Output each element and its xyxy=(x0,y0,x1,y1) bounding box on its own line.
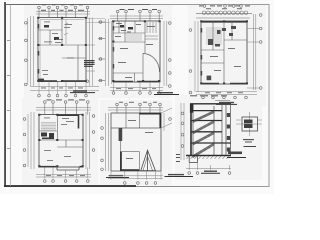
plan A left wall window fills xyxy=(37,24,39,74)
plan B outer wall xyxy=(113,21,160,82)
plan D bottom dim text xyxy=(46,174,85,177)
plan A bottom dim text xyxy=(41,87,83,90)
plan A axis bubbles top xyxy=(38,6,89,17)
faint scan haze washes xyxy=(22,4,266,186)
plan B right axis bubbles xyxy=(169,22,172,88)
plan D title text xyxy=(109,175,123,176)
plan D outer wall xyxy=(39,115,83,168)
plan C title underline xyxy=(216,103,237,105)
roof plan right thick wall xyxy=(159,113,161,128)
stair section right window blocks xyxy=(227,113,230,152)
plan C interior dark fixtures xyxy=(207,26,236,80)
plan C outer wall xyxy=(201,21,247,84)
roof plan left dimension chain xyxy=(105,113,161,180)
plan A title text xyxy=(73,90,87,91)
roof plan hatched wall left xyxy=(119,128,123,141)
plan C bottom axis bubbles xyxy=(202,96,248,99)
detail G dark core xyxy=(244,120,253,129)
binding margin line xyxy=(10,5,12,186)
plan C inner walls xyxy=(201,21,247,84)
plan D right dimension chain xyxy=(86,112,90,169)
plan B title text xyxy=(157,92,173,93)
plan A bottom-left corner mass xyxy=(38,79,44,82)
plan A inner wall lines xyxy=(38,18,86,82)
roof plan interior annotation xyxy=(126,120,153,159)
stair section bottom dimension line xyxy=(186,163,231,170)
roof plan chimney rect xyxy=(120,152,139,171)
plan B bottom axis bubbles xyxy=(112,92,160,95)
roof gable triangle xyxy=(141,150,156,170)
plan D axis bubbles top xyxy=(44,101,90,115)
plan D right upper thick wall xyxy=(78,115,80,129)
plan D interior annotation dashes xyxy=(44,118,74,161)
plan C top wall thick xyxy=(201,21,247,23)
plan D left axis bubbles xyxy=(23,118,26,167)
stair flight 2 xyxy=(193,121,214,134)
roof plan right axis bubble xyxy=(169,118,172,121)
plan B title underline xyxy=(154,94,179,96)
roof plan axis bubbles top xyxy=(116,103,162,113)
stair section title text xyxy=(228,152,242,155)
stair section roof slab xyxy=(190,103,231,105)
roof plan title underline xyxy=(165,176,194,178)
detail G underline xyxy=(244,146,257,148)
stair section top-left hatch xyxy=(190,104,193,112)
plan C bubble chain row xyxy=(196,11,252,18)
plan C right dimension chain xyxy=(247,14,259,90)
plan D bottom extension ticks xyxy=(45,168,88,179)
plan A corner tag bubble xyxy=(86,80,89,83)
plan B door arc xyxy=(143,54,160,73)
plan B stair hatch xyxy=(127,34,141,41)
stair section left dimension chain xyxy=(181,103,184,160)
detail G crosshair lines xyxy=(236,112,262,136)
plan D top dimension text xyxy=(47,99,86,100)
plan A right note text xyxy=(84,60,95,67)
plan A bottom dimension lines xyxy=(30,82,99,95)
plan B bottom wall thick segments xyxy=(114,80,159,82)
plan D bottom axis bubbles xyxy=(44,180,90,183)
plan B left axis bubbles xyxy=(98,22,105,81)
plan A bottom wall thick segments xyxy=(39,80,85,82)
plan B top dimension text xyxy=(120,9,158,10)
plan C stair hatch xyxy=(206,28,222,44)
roof plan inner verticals xyxy=(120,113,139,171)
plan A right axis bubbles xyxy=(99,21,102,82)
roof plan bottom axis bubbles xyxy=(124,182,157,185)
plan D top dimension lines xyxy=(36,108,91,111)
roof plan top text dashes xyxy=(119,101,157,104)
roof plan bottom dimension lines xyxy=(108,176,163,179)
connector lines A top-right to B xyxy=(87,17,105,19)
plan C title text xyxy=(219,102,234,103)
plan C bottom dimension lines xyxy=(196,92,257,95)
plan C top axis bubbles xyxy=(203,5,242,8)
plan B right dimension chain xyxy=(164,21,167,86)
plan A interior annotation dashes xyxy=(42,22,74,75)
plan D bottom dimension lines xyxy=(36,175,91,178)
plan B interior annotation dashes xyxy=(115,23,155,78)
plan D balcony notch xyxy=(57,167,79,170)
connector line between plan A and plan B xyxy=(86,22,110,24)
plan D bottom wall thick segments xyxy=(40,166,83,168)
plan D right axis bubbles xyxy=(92,115,95,152)
stair section ground line xyxy=(186,155,231,157)
plan A bottom axis bubbles xyxy=(38,94,88,97)
plan D stair hatch xyxy=(41,123,56,131)
plan A title underline xyxy=(70,92,95,94)
plan A interior dim tick line xyxy=(64,20,68,44)
stair section foundation pit xyxy=(189,156,197,163)
stair section mid rail xyxy=(213,106,215,156)
plan B inner walls xyxy=(113,21,145,82)
plan B bottom dimension lines xyxy=(110,88,163,91)
plan D top wall thick xyxy=(57,114,79,116)
plan A top dimension lines xyxy=(36,12,90,15)
stair flight 3 xyxy=(193,132,214,145)
plan B axis bubbles top xyxy=(116,10,160,21)
plan C bottom dim text xyxy=(205,91,243,94)
stair section floor slabs xyxy=(191,111,231,143)
roof plan mid line xyxy=(111,127,161,129)
stair section top text xyxy=(190,95,227,96)
plan C left wall window fills xyxy=(200,28,202,76)
plan D bathroom fixtures xyxy=(41,133,54,140)
roof plan title text xyxy=(168,174,184,175)
plan B left wall window fills xyxy=(112,26,114,69)
plan A left axis bubbles xyxy=(25,22,28,86)
roof plan outline xyxy=(111,113,161,171)
stair section side note text xyxy=(176,154,180,162)
plan A top dimension text xyxy=(41,4,84,10)
stair flight 1 xyxy=(193,111,214,123)
stair section ground hatch xyxy=(187,156,230,159)
plan C interior annotation dashes xyxy=(210,48,241,71)
stair section title underline 2 xyxy=(227,157,246,159)
detail G outer rect xyxy=(242,117,258,131)
plan A outer wall xyxy=(38,18,86,82)
roof plan top dimension line xyxy=(108,108,163,111)
plan A inner face line xyxy=(40,20,84,80)
plan D wall fills xyxy=(38,114,83,167)
plan B wall fills xyxy=(112,20,161,82)
plan C left axis bubbles xyxy=(189,29,192,94)
plan C wall fills xyxy=(200,20,248,84)
stair section bottom bubbles xyxy=(188,172,231,175)
sheet border frame xyxy=(4,2,269,187)
plan B bottom dim text xyxy=(116,87,156,90)
plan C top text dashes xyxy=(199,5,250,9)
plan B top dimension lines xyxy=(110,16,163,19)
plan B upper-right room texture xyxy=(145,22,158,39)
plan D left dimension chain xyxy=(28,112,34,169)
plan D inner walls xyxy=(39,115,83,148)
plan C right axis bubbles xyxy=(259,14,262,90)
stair section left tick bubbles xyxy=(181,112,184,147)
roof plan right extension lines xyxy=(161,108,172,131)
roof plan top-right thick wall xyxy=(139,113,161,115)
stair section title text above underline xyxy=(204,171,217,172)
plan B left dimension chain xyxy=(106,19,112,86)
stair section left wall xyxy=(191,104,193,156)
stair flight 4 xyxy=(193,143,214,158)
plan B bottom extension ticks xyxy=(114,82,160,92)
stair section title underline xyxy=(201,172,220,174)
detail G text below xyxy=(243,139,254,143)
plan A left dimension chain xyxy=(28,16,34,86)
plan C bottom wall thick segments xyxy=(201,83,247,85)
plan D title underline xyxy=(106,177,129,179)
stair section risers xyxy=(197,113,209,156)
plan A right dimension chain xyxy=(86,18,95,87)
plan A wall fills xyxy=(37,17,87,82)
margin tick marks xyxy=(7,40,10,149)
stair section right wall lines xyxy=(222,104,231,156)
roof plan left axis bubbles xyxy=(101,127,104,171)
plan C left dimension chain xyxy=(195,21,198,92)
